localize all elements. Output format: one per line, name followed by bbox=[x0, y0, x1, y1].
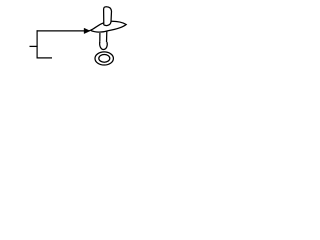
wire: left tick of leader bracket bbox=[30, 45, 38, 47]
O-ring outer bbox=[95, 52, 113, 65]
background bbox=[0, 0, 150, 74]
arrowhead pointing at valve bbox=[84, 28, 90, 33]
valve body cap (domed cylinder) bbox=[104, 7, 112, 26]
valve stem (nipple below flange) bbox=[99, 33, 101, 44]
valve tip bulb bbox=[100, 42, 108, 50]
wire: top leader line to arrow bbox=[37, 30, 85, 32]
wire: vertical of leader bracket bbox=[36, 30, 38, 58]
O-ring inner bbox=[99, 55, 110, 63]
wire: bottom horizontal of leader bracket bbox=[37, 57, 52, 59]
parts-diagram: check valve with O-ring, leader lines bbox=[0, 0, 150, 74]
valve flange (washer seen edge-on, tilted lens) bbox=[90, 21, 126, 32]
